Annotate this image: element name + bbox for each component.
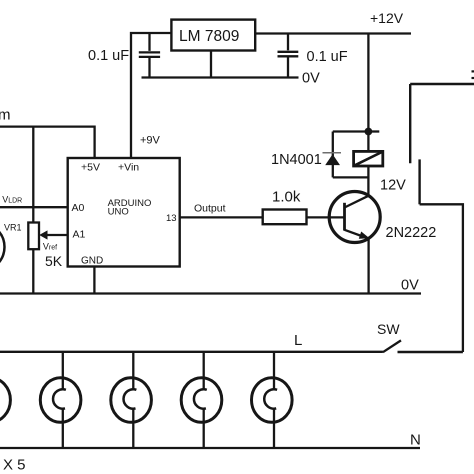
wire: R1 to base	[307, 216, 345, 218]
Q1 base bar	[343, 203, 346, 231]
Q1 emitter diagonal	[345, 230, 368, 238]
transistor Q1 2N2222 circle	[329, 192, 380, 243]
capacitor C2 0.1uF right: top stub	[287, 34, 289, 51]
svg-text:UNO: UNO	[108, 207, 129, 218]
wire: 0V return line under regulator	[142, 76, 299, 78]
svg-text:13: 13	[166, 213, 177, 224]
wire: 0V rail (middle)	[0, 292, 421, 294]
wire: +12V rail down to relay coil and transistor collector	[367, 34, 369, 197]
Q1 emitter arrowhead	[359, 232, 370, 239]
svg-text:0.1 uF: 0.1 uF	[307, 49, 348, 65]
resistor R1 1.0k: lead from Output pin	[180, 216, 263, 218]
relay contact: moving terminal	[418, 159, 420, 204]
wire: switch right segment	[398, 351, 463, 353]
diode D1 cathode bar	[323, 152, 342, 154]
lamp LP3	[111, 352, 152, 448]
junction dot at relay/diode node	[365, 128, 373, 136]
svg-text:5K: 5K	[45, 253, 63, 269]
capacitor C1 bottom stub	[148, 58, 150, 78]
svg-text:0V: 0V	[302, 71, 320, 87]
svg-text:L: L	[294, 332, 302, 349]
lamp LP5	[251, 352, 292, 448]
capacitor C1 plates	[139, 51, 160, 53]
lamp LP4	[181, 352, 222, 448]
diode D1 triangle	[325, 154, 340, 165]
wire: emitter down to 0V rail	[367, 239, 369, 294]
svg-text:GND: GND	[81, 256, 103, 267]
switch SW blade	[383, 340, 401, 352]
svg-text:1.0k: 1.0k	[272, 189, 301, 206]
capacitor C1 0.1uF left: top stub	[148, 33, 150, 51]
relay contact: common rail to right edge	[410, 83, 474, 85]
svg-text:2N2222: 2N2222	[386, 225, 437, 241]
diode D1 anode lead	[332, 164, 334, 177]
svg-text:A0: A0	[72, 202, 85, 214]
wire: LM7809 output to +12V rail	[255, 32, 411, 34]
svg-text:X 5: X 5	[3, 457, 26, 474]
svg-text:A1: A1	[73, 229, 86, 241]
relay RLA coil box	[354, 151, 383, 166]
wire: L rail	[0, 351, 383, 353]
wire: stub right of junction	[368, 130, 379, 132]
resistor R1 body	[263, 210, 307, 225]
wire: contact to right side down	[420, 204, 463, 352]
regulator LM 7809 box	[171, 20, 255, 51]
wire: LM7809 ground pin	[210, 51, 212, 78]
lamp LP2	[40, 352, 81, 448]
svg-text:LM 7809: LM 7809	[179, 28, 239, 45]
capacitor C2 bottom stub	[287, 57, 289, 77]
diode D1 1N4001: cathode lead	[332, 132, 334, 157]
svg-text:0.1 uF: 0.1 uF	[88, 48, 129, 64]
LDR partial circle at left edge	[0, 223, 5, 271]
potentiometer VR1 body	[28, 223, 39, 250]
wire: diode loop bottom	[333, 176, 369, 178]
wiper arrow from A1 to VR1	[47, 234, 68, 236]
svg-text:SW: SW	[377, 321, 400, 337]
svg-text:+9V: +9V	[140, 135, 161, 147]
Arduino Uno U1 box	[68, 158, 180, 267]
svg-text:m: m	[0, 107, 11, 124]
wire: GND pin down to 0V rail	[93, 267, 95, 294]
svg-text:+Vin: +Vin	[118, 161, 139, 173]
svg-text:1N4001: 1N4001	[271, 152, 322, 168]
wire: +Vin up and over to LM7809 input	[131, 33, 171, 158]
wire: top-left rail from off-canvas to +5V	[0, 127, 95, 158]
svg-text:+5V: +5V	[81, 162, 100, 174]
wire: diode loop top	[333, 130, 369, 132]
svg-text:Output: Output	[194, 203, 226, 215]
Q1 collector diagonal	[345, 196, 369, 208]
svg-text:+12V: +12V	[370, 10, 404, 26]
wire: VR1 bottom to 0V rail	[32, 249, 34, 293]
svg-text:12V: 12V	[380, 178, 406, 194]
lamp LP1 (cropped at left edge)	[0, 378, 10, 423]
svg-text:0V: 0V	[401, 278, 419, 294]
relay coil diagonal	[354, 152, 383, 166]
label fragment at right edge	[472, 70, 474, 72]
wire: VLDR node down to VR1	[32, 207, 34, 222]
wire: branch down to VLDR node	[32, 127, 34, 208]
capacitor C2 plates	[278, 51, 299, 53]
svg-text:N: N	[410, 432, 421, 449]
svg-text:VR1: VR1	[4, 223, 22, 233]
wire: VLDR node to A0 pin	[0, 206, 68, 208]
wire: N rail	[0, 447, 420, 449]
relay contact: fixed terminal	[409, 84, 411, 163]
